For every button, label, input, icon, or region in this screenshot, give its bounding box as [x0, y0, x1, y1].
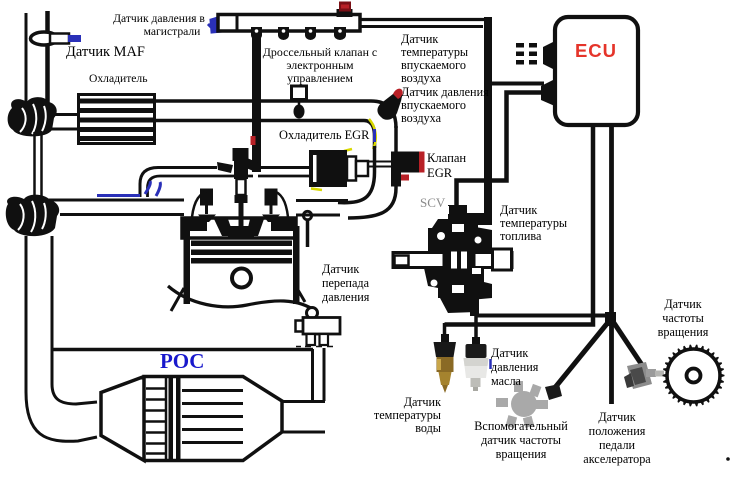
- svg-text:перепада: перепада: [322, 276, 370, 290]
- high pressure pipe bottom line: [360, 25, 483, 28]
- cylinder left skirt flare: [171, 288, 184, 311]
- high pressure pipe rail to pump top line: [360, 18, 489, 21]
- svg-text:вращения: вращения: [496, 447, 547, 461]
- exhaust runner right of head bottom line: [296, 214, 340, 217]
- high pressure pipe vertical bar down to pump: [484, 17, 492, 217]
- blue pen marks on exhaust pipe: [97, 181, 160, 196]
- svg-text:Датчик: Датчик: [500, 203, 537, 217]
- intercooler fins: [80, 99, 153, 142]
- left intake valve spring block: [200, 189, 213, 206]
- wire junction: [605, 312, 616, 326]
- exhaust temperature sensor stick: [303, 211, 311, 219]
- svg-text:топлива: топлива: [500, 229, 542, 243]
- injector lower holder: [237, 179, 246, 195]
- common rail left end box divider: [236, 15, 239, 31]
- rail red sensor cap: [339, 2, 351, 12]
- piston ring 2: [191, 250, 292, 256]
- svg-text:Датчик давления в: Датчик давления в: [113, 12, 205, 25]
- cylinder right wall: [293, 226, 300, 304]
- svg-text:EGR: EGR: [427, 166, 453, 180]
- EGR cooler body: [309, 150, 347, 187]
- wire drop to water temperature sensor: [443, 323, 447, 342]
- throttle butterfly: [294, 105, 305, 119]
- svg-text:Датчик давления: Датчик давления: [401, 85, 489, 99]
- svg-text:Датчик: Датчик: [598, 410, 635, 424]
- exhaust runner right of head top line: [296, 199, 348, 202]
- dp sensor dashed tap lines: [296, 346, 333, 348]
- muffler POC body outline: [101, 377, 282, 461]
- intake pressure sensor red tip: [393, 89, 403, 99]
- svg-text:электронным: электронным: [286, 58, 354, 72]
- ECU lower connector: [541, 78, 557, 107]
- MAF sensor body: [50, 34, 69, 44]
- muffler center dark bars: [169, 377, 174, 460]
- throttle valve actuator square: [292, 86, 307, 100]
- ECU left output wire down: [445, 125, 594, 325]
- ECU upper connector: [543, 40, 557, 71]
- svg-text:Охладитель: Охладитель: [89, 72, 148, 85]
- injector left leak-off wing: [217, 162, 233, 173]
- auxiliary speed sensor grey body: [496, 381, 548, 428]
- svg-text:Датчик: Датчик: [322, 262, 359, 276]
- water temperature sensor: [434, 334, 457, 393]
- intake duct outer curve down to engine: [348, 126, 396, 218]
- common rail left blue pressure sensor: [208, 17, 222, 32]
- yellow pen marks at manifold elbow: [344, 119, 376, 151]
- turbocharger 1 outlet pipe to intercooler: [50, 113, 80, 116]
- ECU right output wire down to pedal sensor: [609, 125, 614, 404]
- intake pressure sensor blob on elbow: [377, 93, 401, 120]
- common rail body: [218, 15, 360, 32]
- svg-text:вращения: вращения: [658, 325, 709, 339]
- pump right body: [470, 226, 492, 300]
- dp sensor body: [303, 318, 340, 335]
- wire from rail pipe to ECU: [487, 82, 544, 86]
- EGR cooler bellows cup: [347, 157, 356, 181]
- svg-text:воздуха: воздуха: [401, 71, 442, 85]
- right exhaust valve spring block: [265, 189, 278, 206]
- pump shaft left cap: [395, 256, 409, 266]
- pump left body: [424, 228, 448, 298]
- injector nozzle: [235, 195, 248, 226]
- svg-text:Дроссельный клапан с: Дроссельный клапан с: [263, 45, 377, 59]
- svg-text:Датчик: Датчик: [664, 297, 701, 311]
- svg-text:давления: давления: [322, 290, 370, 304]
- EGR valve body: [391, 152, 401, 187]
- exhaust port arc: [272, 190, 288, 217]
- exhaust J-pipe outer line down to muffler: [26, 236, 97, 441]
- blue pen dash at manifold elbow: [373, 129, 376, 142]
- svg-text:Датчик: Датчик: [401, 32, 438, 46]
- injector top cap: [233, 148, 249, 161]
- bottom right pen dot: [726, 457, 730, 461]
- svg-text:ECU: ECU: [575, 40, 617, 61]
- intake port arc: [192, 190, 209, 217]
- cylinder left wall: [184, 226, 191, 304]
- svg-text:Охладитель EGR: Охладитель EGR: [279, 128, 370, 142]
- exhaust pipe engine to turbo 2 bottom line: [60, 213, 184, 216]
- svg-text:Клапан: Клапан: [427, 151, 466, 165]
- turbo shaft pipes between turbos: [33, 132, 36, 200]
- svg-text:давления: давления: [491, 360, 539, 374]
- intake manifold elbow pipe bottom line: [148, 176, 254, 197]
- charge pipe intercooler to throttle top line: [154, 101, 396, 128]
- muffler outlet pipe lines: [282, 400, 325, 403]
- crankshaft gear ring: [663, 345, 725, 407]
- pump shaft right cap: [493, 249, 512, 270]
- svg-text:РОС: РОС: [160, 349, 204, 373]
- dp sensor left nub: [296, 321, 304, 332]
- throttle valve stem: [298, 99, 301, 105]
- turbocharger 2 (turbine blob): [6, 195, 59, 237]
- injector right leak-off wing: [246, 158, 259, 172]
- charge pipe bottom line with elbow down: [154, 121, 375, 149]
- oil pressure sensor: [464, 337, 489, 391]
- svg-text:впускаемого: впускаемого: [401, 58, 466, 72]
- pump hub: [444, 247, 474, 273]
- muffler ladder rungs: [145, 389, 166, 454]
- svg-text:управлением: управлением: [287, 71, 353, 85]
- intercooler body: [79, 95, 155, 144]
- right valve stem and seat: [270, 204, 273, 214]
- EGR valve shaft: [368, 161, 392, 163]
- injector body: [234, 160, 248, 179]
- pump drive shaft: [393, 253, 512, 268]
- svg-text:SCV: SCV: [420, 195, 446, 210]
- svg-text:температуры: температуры: [374, 408, 441, 422]
- svg-text:Датчик MAF: Датчик MAF: [66, 44, 145, 60]
- MAF sensor clamp ring: [31, 32, 58, 45]
- svg-text:акселератора: акселератора: [583, 452, 651, 466]
- crankshaft position sensor: [624, 362, 664, 389]
- pump upper flange: [432, 219, 486, 250]
- pump bottom flange: [440, 298, 476, 313]
- svg-text:воздуха: воздуха: [401, 111, 442, 125]
- svg-text:положения: положения: [589, 424, 646, 438]
- turbocharger 1 (compressor blob): [8, 97, 57, 136]
- piston ring 3: [191, 258, 292, 264]
- rail red sensor base: [337, 9, 353, 17]
- svg-text:магистрали: магистрали: [144, 25, 201, 38]
- svg-text:Датчик: Датчик: [491, 346, 528, 360]
- air intake pipe left line: [25, 13, 28, 103]
- pump central column: [448, 219, 470, 311]
- blue pen dash near oil sensor: [489, 359, 492, 369]
- pump fuel inlet bar: [466, 213, 492, 225]
- pump SCV top unit: [448, 205, 467, 219]
- piston pin: [232, 269, 251, 288]
- exhaust pipe engine to turbo 2 top line: [48, 199, 184, 202]
- dp sensor downpipe: [311, 349, 314, 401]
- sensor bus wire upper: [475, 314, 611, 318]
- svg-text:датчик частоты: датчик частоты: [481, 433, 561, 447]
- supply pump assembly: [424, 205, 492, 316]
- EGR valve red marks: [419, 152, 425, 173]
- pressure sampling line over muffler: [53, 348, 313, 352]
- svg-text:частоты: частоты: [662, 311, 704, 325]
- svg-text:воды: воды: [415, 421, 441, 435]
- svg-text:Вспомогательный: Вспомогательный: [474, 419, 568, 433]
- air intake pipe right line: [45, 11, 50, 103]
- svg-text:педали: педали: [599, 438, 636, 452]
- pump white details: [437, 232, 445, 240]
- svg-text:температуры: температуры: [401, 45, 468, 59]
- ECU box: [555, 17, 638, 125]
- muffler right section lines: [182, 391, 243, 443]
- engine cylinder head band: [182, 218, 296, 238]
- svg-text:впускаемого: впускаемого: [401, 98, 466, 112]
- yellow mark under EGR cooler: [311, 189, 322, 191]
- cylinder right skirt flare: [298, 290, 305, 302]
- left valve stem and seat: [205, 204, 208, 214]
- MAF sensor blue tip: [68, 35, 81, 42]
- ECU connector dashes: [516, 43, 537, 65]
- crankcase wavy line: [168, 286, 317, 312]
- svg-text:температуры: температуры: [500, 216, 567, 230]
- intake duct inner curve: [338, 146, 375, 203]
- diagonal wire to auxiliary speed sensor: [553, 320, 610, 390]
- wire drop to oil pressure sensor: [474, 315, 478, 344]
- intake manifold elbow pipe to charge pipe top line: [140, 168, 217, 198]
- SCV control wire from ECU: [457, 93, 544, 211]
- muffler ladder section divider: [165, 377, 168, 460]
- svg-text:Датчик: Датчик: [404, 395, 441, 409]
- svg-text:масла: масла: [491, 374, 522, 388]
- red pen mark on fuel line: [251, 136, 256, 145]
- dp sensor screw circle: [307, 308, 318, 319]
- diagonal wire to crankshaft speed sensor: [612, 320, 646, 371]
- piston ring 1: [191, 241, 292, 247]
- auxiliary sensor connector: [545, 384, 562, 400]
- injector fuel line bar from rail: [252, 36, 261, 172]
- injector unions under rail: [251, 27, 346, 40]
- EGR pipe from head to EGR cooler: [253, 166, 310, 169]
- dp sensor legs: [307, 334, 316, 345]
- exhaust J-pipe inner line: [52, 236, 97, 404]
